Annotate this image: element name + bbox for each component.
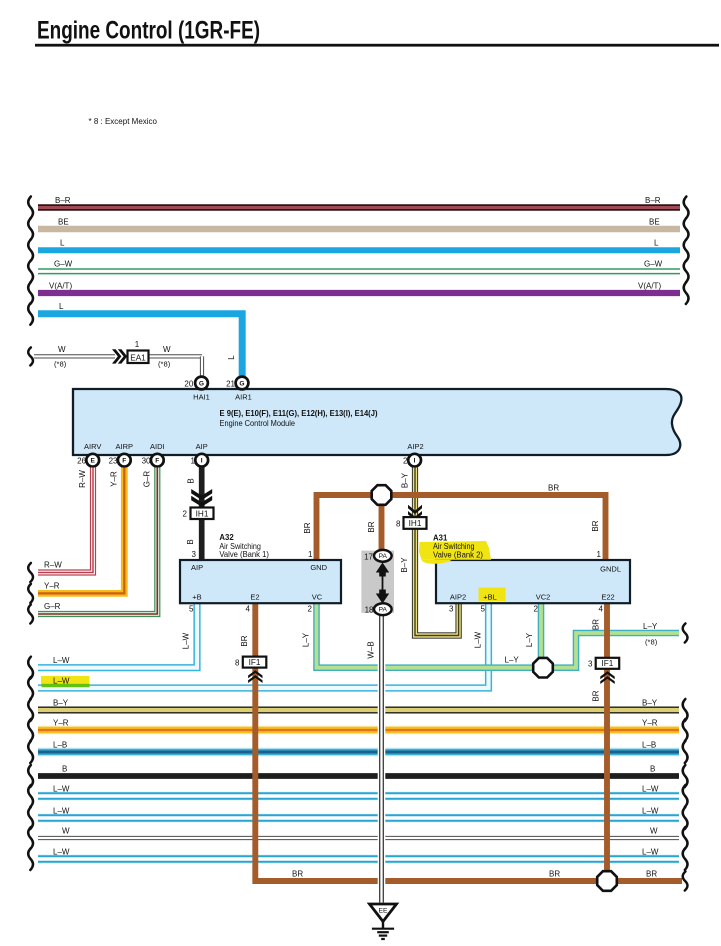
svg-text:L–W: L–W	[642, 785, 659, 794]
svg-text:3: 3	[192, 550, 197, 559]
svg-text:GND: GND	[310, 563, 327, 572]
svg-text:E 9(E), E10(F), E11(G), E12(H): E 9(E), E10(F), E11(G), E12(H), E13(I), …	[220, 408, 378, 418]
svg-text:G: G	[199, 380, 204, 387]
svg-text:AIRP: AIRP	[116, 442, 134, 451]
svg-text:17: 17	[364, 553, 373, 562]
svg-text:BR: BR	[548, 484, 559, 493]
svg-text:W: W	[163, 345, 171, 354]
svg-text:AIP: AIP	[191, 563, 203, 572]
svg-text:W–B: W–B	[367, 641, 376, 658]
svg-text:BR: BR	[549, 870, 560, 879]
svg-text:8: 8	[396, 520, 401, 529]
svg-text:Valve (Bank 1): Valve (Bank 1)	[219, 550, 269, 559]
svg-text:A32: A32	[219, 533, 234, 542]
svg-text:L–W: L–W	[53, 785, 70, 794]
svg-text:Y–R: Y–R	[110, 471, 119, 487]
svg-text:L–W: L–W	[182, 632, 191, 649]
svg-text:BR: BR	[367, 521, 376, 532]
svg-text:R–W: R–W	[44, 561, 62, 570]
svg-text:AIP: AIP	[196, 442, 208, 451]
svg-text:4: 4	[246, 605, 251, 614]
svg-text:1: 1	[597, 550, 602, 559]
svg-text:L–Y: L–Y	[302, 632, 311, 647]
svg-text:F: F	[122, 458, 126, 465]
svg-text:L–B: L–B	[53, 741, 67, 750]
svg-text:W: W	[650, 827, 658, 836]
svg-text:3: 3	[588, 660, 593, 669]
svg-text:BR: BR	[292, 870, 303, 879]
svg-text:4: 4	[599, 605, 604, 614]
svg-text:I: I	[414, 458, 416, 465]
svg-text:B–Y: B–Y	[400, 557, 409, 573]
svg-text:AIP2: AIP2	[407, 442, 423, 451]
svg-text:R–W: R–W	[78, 470, 87, 488]
svg-text:I: I	[201, 458, 203, 465]
svg-text:L–B: L–B	[642, 741, 656, 750]
svg-text:L: L	[227, 355, 236, 360]
svg-text:V(A/T): V(A/T)	[49, 281, 72, 290]
svg-text:BE: BE	[58, 217, 69, 226]
svg-text:BR: BR	[646, 870, 657, 879]
svg-text:3: 3	[449, 605, 454, 614]
svg-text:Y–R: Y–R	[53, 719, 69, 728]
svg-text:L–W: L–W	[642, 848, 659, 857]
svg-text:E2: E2	[250, 593, 259, 602]
svg-text:B: B	[186, 539, 195, 544]
svg-text:BR: BR	[592, 619, 601, 630]
svg-text:B–Y: B–Y	[642, 699, 658, 708]
svg-text:L–Y: L–Y	[525, 632, 534, 647]
svg-text:+B: +B	[192, 593, 201, 602]
svg-text:AIR1: AIR1	[235, 393, 252, 402]
svg-text:PA: PA	[379, 607, 388, 614]
svg-text:IF1: IF1	[249, 658, 261, 667]
svg-text:IH1: IH1	[196, 509, 209, 518]
svg-text:E: E	[90, 458, 95, 465]
svg-text:L–W: L–W	[53, 848, 70, 857]
svg-text:G–W: G–W	[644, 260, 663, 269]
svg-text:BE: BE	[649, 217, 660, 226]
svg-text:L–W: L–W	[53, 807, 70, 816]
svg-text:VC: VC	[312, 593, 323, 602]
svg-text:Valve (Bank 2): Valve (Bank 2)	[433, 551, 483, 560]
svg-text:B: B	[650, 765, 655, 774]
svg-text:VC2: VC2	[536, 593, 551, 602]
svg-text:L–W: L–W	[53, 656, 70, 665]
svg-text:B–Y: B–Y	[53, 699, 69, 708]
svg-text:EE: EE	[378, 908, 388, 915]
svg-text:PA: PA	[379, 553, 388, 560]
svg-text:1: 1	[135, 340, 140, 349]
svg-text:W: W	[58, 345, 66, 354]
svg-text:BR: BR	[591, 520, 600, 531]
svg-text:L–W: L–W	[53, 677, 70, 686]
svg-text:Y–R: Y–R	[44, 582, 60, 591]
svg-text:GNDL: GNDL	[600, 565, 621, 574]
svg-text:30: 30	[142, 456, 151, 465]
svg-text:Engine Control Module: Engine Control Module	[220, 418, 296, 428]
svg-text:AIRV: AIRV	[84, 442, 101, 451]
svg-text:1: 1	[191, 456, 196, 465]
svg-text:+BL: +BL	[483, 593, 497, 602]
svg-text:F: F	[155, 458, 159, 465]
svg-text:(*8): (*8)	[158, 360, 171, 369]
svg-text:L–Y: L–Y	[643, 622, 658, 631]
svg-text:L: L	[60, 239, 65, 248]
svg-text:IH1: IH1	[409, 519, 422, 528]
svg-text:21: 21	[226, 380, 235, 389]
svg-text:G–W: G–W	[54, 260, 73, 269]
svg-text:AIDI: AIDI	[150, 442, 165, 451]
svg-text:G: G	[239, 380, 244, 387]
svg-text:B–Y: B–Y	[401, 472, 410, 488]
svg-text:G–R: G–R	[143, 471, 152, 488]
svg-text:EA1: EA1	[130, 353, 146, 362]
svg-text:B–R: B–R	[645, 196, 661, 205]
svg-text:L–Y: L–Y	[505, 656, 520, 665]
svg-text:L–W: L–W	[642, 807, 659, 816]
svg-text:1: 1	[308, 550, 313, 559]
svg-text:Y–R: Y–R	[642, 719, 658, 728]
svg-text:G–R: G–R	[44, 602, 61, 611]
svg-text:BR: BR	[592, 690, 601, 701]
svg-text:L: L	[654, 239, 659, 248]
svg-text:23: 23	[109, 456, 118, 465]
svg-text:L–W: L–W	[474, 631, 483, 648]
svg-text:BR: BR	[303, 522, 312, 533]
svg-text:(*8): (*8)	[54, 360, 67, 369]
svg-text:26: 26	[77, 456, 86, 465]
svg-text:AIP2: AIP2	[450, 593, 466, 602]
svg-text:E22: E22	[601, 593, 614, 602]
svg-text:IF1: IF1	[602, 659, 614, 668]
svg-text:B–R: B–R	[55, 196, 71, 205]
svg-text:Engine Control (1GR-FE): Engine Control (1GR-FE)	[37, 17, 260, 45]
svg-text:5: 5	[189, 605, 194, 614]
svg-text:W: W	[62, 827, 70, 836]
svg-text:HAI1: HAI1	[193, 393, 210, 402]
svg-text:* 8 : Except Mexico: * 8 : Except Mexico	[89, 117, 158, 126]
svg-text:L: L	[59, 302, 64, 311]
svg-text:BR: BR	[240, 635, 249, 646]
svg-text:2: 2	[534, 605, 539, 614]
svg-text:V(A/T): V(A/T)	[638, 281, 661, 290]
svg-text:2: 2	[183, 510, 188, 519]
svg-text:8: 8	[235, 659, 240, 668]
svg-text:2: 2	[308, 605, 313, 614]
svg-text:B: B	[187, 478, 196, 483]
svg-text:18: 18	[365, 605, 374, 614]
svg-text:5: 5	[481, 605, 486, 614]
svg-text:2: 2	[403, 456, 408, 465]
svg-text:(*8): (*8)	[645, 638, 658, 647]
svg-text:B: B	[62, 765, 67, 774]
svg-text:20: 20	[184, 380, 193, 389]
